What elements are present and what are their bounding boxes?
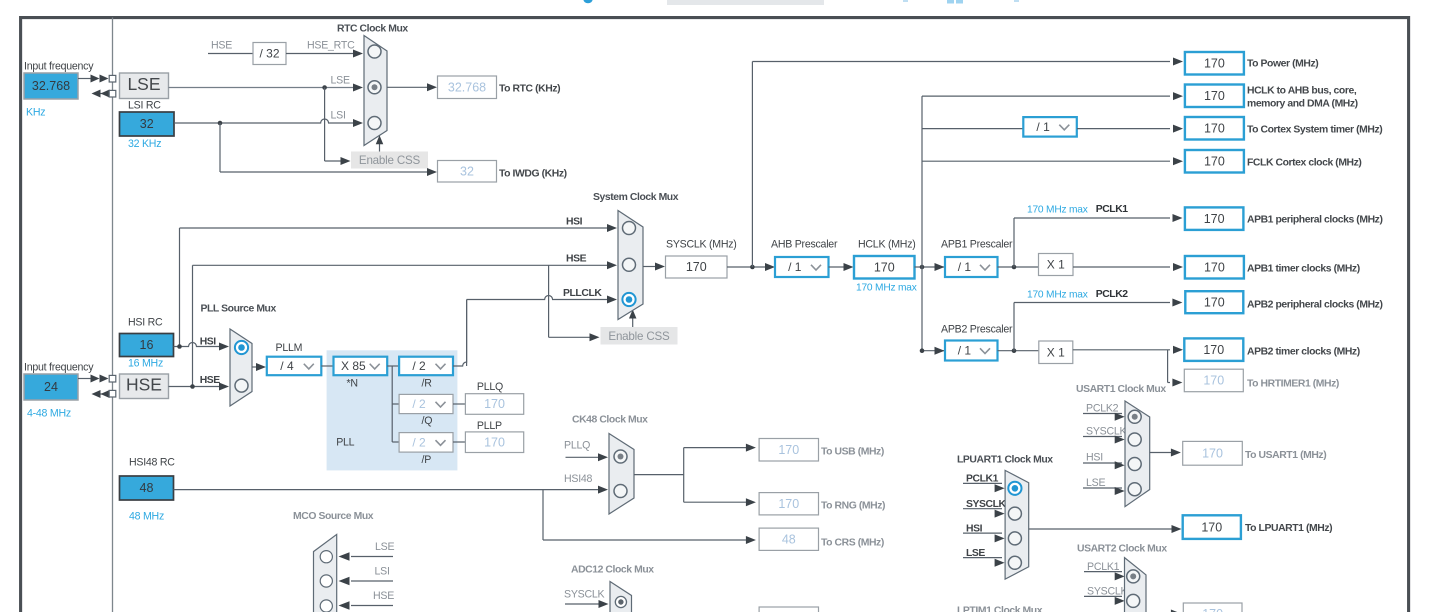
svg-text:170: 170 xyxy=(1204,56,1225,70)
svg-text:HSI: HSI xyxy=(1086,452,1103,464)
svg-text:170 MHz max: 170 MHz max xyxy=(856,283,917,294)
svg-text:To Cortex System timer (MHz): To Cortex System timer (MHz) xyxy=(1247,125,1382,136)
svg-text:HSE: HSE xyxy=(200,375,221,386)
svg-text:PLL Source Mux: PLL Source Mux xyxy=(201,304,277,315)
svg-text:USART1 Clock Mux: USART1 Clock Mux xyxy=(1076,384,1166,395)
svg-text:PLLQ: PLLQ xyxy=(564,440,590,452)
svg-text:16: 16 xyxy=(140,338,154,352)
svg-text:/ 1: / 1 xyxy=(958,260,972,274)
svg-text:170: 170 xyxy=(1204,260,1225,274)
svg-text:170: 170 xyxy=(1202,607,1223,612)
svg-text:HSE: HSE xyxy=(211,40,232,52)
svg-text:/ 2: / 2 xyxy=(412,397,426,411)
svg-text:HSI48 RC: HSI48 RC xyxy=(129,457,175,469)
svg-text:To RNG (MHz): To RNG (MHz) xyxy=(821,501,885,512)
svg-text:HSE: HSE xyxy=(373,590,394,602)
svg-text:To RTC (KHz): To RTC (KHz) xyxy=(499,84,560,95)
svg-text:LSE: LSE xyxy=(127,74,160,94)
svg-text:170: 170 xyxy=(484,397,505,411)
svg-text:32.768: 32.768 xyxy=(32,79,70,93)
svg-text:170: 170 xyxy=(484,435,505,449)
svg-text:32: 32 xyxy=(140,117,154,131)
svg-text:170: 170 xyxy=(1204,154,1225,168)
svg-text:PLLQ: PLLQ xyxy=(477,381,503,393)
svg-text:APB2 timer clocks (MHz): APB2 timer clocks (MHz) xyxy=(1247,347,1360,358)
svg-text:LSI: LSI xyxy=(331,110,346,122)
svg-text:KHz: KHz xyxy=(26,107,45,119)
svg-text:X 1: X 1 xyxy=(1047,345,1065,359)
svg-text:MCO Source Mux: MCO Source Mux xyxy=(293,511,374,522)
svg-text:*N: *N xyxy=(347,378,358,390)
svg-text:USART2 Clock Mux: USART2 Clock Mux xyxy=(1077,544,1167,555)
svg-text:HCLK to AHB bus, core,: HCLK to AHB bus, core, xyxy=(1247,86,1357,97)
svg-text:48: 48 xyxy=(140,481,154,495)
svg-text:To CRS (MHz): To CRS (MHz) xyxy=(821,538,884,549)
svg-text:HSE: HSE xyxy=(566,254,587,265)
svg-text:16 MHz: 16 MHz xyxy=(128,358,163,370)
svg-text:Input frequency: Input frequency xyxy=(24,61,94,73)
svg-text:170: 170 xyxy=(1203,343,1224,357)
svg-text:32 KHz: 32 KHz xyxy=(128,138,161,150)
svg-text:LSE: LSE xyxy=(331,75,350,87)
svg-text:Enable CSS: Enable CSS xyxy=(608,330,670,343)
svg-text:/ 1: / 1 xyxy=(958,344,972,358)
svg-text:Enable CSS: Enable CSS xyxy=(359,154,421,167)
svg-text:170: 170 xyxy=(1202,447,1223,461)
svg-text:170: 170 xyxy=(1204,295,1225,309)
svg-text:170: 170 xyxy=(1204,212,1225,226)
svg-text:32.768: 32.768 xyxy=(448,80,486,94)
svg-text:HCLK (MHz): HCLK (MHz) xyxy=(858,239,916,251)
svg-text:To HRTIMER1 (MHz): To HRTIMER1 (MHz) xyxy=(1247,379,1339,390)
svg-text:32: 32 xyxy=(460,164,474,178)
svg-text:FCLK Cortex clock (MHz): FCLK Cortex clock (MHz) xyxy=(1247,158,1361,169)
svg-text:APB1 timer clocks (MHz): APB1 timer clocks (MHz) xyxy=(1247,264,1360,275)
svg-text:System Clock Mux: System Clock Mux xyxy=(593,192,679,203)
svg-text:/P: /P xyxy=(422,454,432,466)
svg-text:LSE: LSE xyxy=(375,541,394,553)
svg-text:48: 48 xyxy=(782,532,796,546)
svg-text:To USART1 (MHz): To USART1 (MHz) xyxy=(1245,450,1326,461)
svg-text:SYSCLK (MHz): SYSCLK (MHz) xyxy=(666,239,737,251)
svg-text:170: 170 xyxy=(1203,374,1224,388)
svg-text:HSI: HSI xyxy=(200,337,217,348)
svg-text:HSE_RTC: HSE_RTC xyxy=(307,40,355,52)
svg-text:LPUART1 Clock Mux: LPUART1 Clock Mux xyxy=(957,455,1053,466)
svg-text:PLLM: PLLM xyxy=(276,342,303,354)
svg-text:CK48 Clock Mux: CK48 Clock Mux xyxy=(572,415,648,426)
svg-text:To USB (MHz): To USB (MHz) xyxy=(821,447,884,458)
svg-text:X 1: X 1 xyxy=(1047,258,1065,272)
svg-text:X 85: X 85 xyxy=(341,359,366,373)
svg-text:APB2 peripheral clocks (MHz): APB2 peripheral clocks (MHz) xyxy=(1247,300,1382,311)
svg-text:/ 2: / 2 xyxy=(412,436,426,450)
svg-text:APB2 Prescaler: APB2 Prescaler xyxy=(941,324,1013,336)
svg-text:memory and DMA (MHz): memory and DMA (MHz) xyxy=(1247,99,1358,110)
svg-text:SYSCLK: SYSCLK xyxy=(1086,426,1126,438)
svg-text:/ 1: / 1 xyxy=(788,260,802,274)
svg-text:HSI RC: HSI RC xyxy=(128,317,163,329)
svg-text:24: 24 xyxy=(44,380,58,394)
svg-text:PLLP: PLLP xyxy=(477,420,502,432)
svg-text:170: 170 xyxy=(1204,89,1225,103)
svg-text:170: 170 xyxy=(778,443,799,457)
svg-text:/ 4: / 4 xyxy=(280,359,294,373)
svg-text:To IWDG (KHz): To IWDG (KHz) xyxy=(499,169,567,180)
svg-text:170: 170 xyxy=(778,497,799,511)
svg-text:LSI RC: LSI RC xyxy=(128,100,161,112)
svg-text:4-48 MHz: 4-48 MHz xyxy=(27,408,71,420)
svg-text:Input frequency: Input frequency xyxy=(24,362,94,374)
svg-text:To LPUART1 (MHz): To LPUART1 (MHz) xyxy=(1245,523,1332,534)
svg-text:170: 170 xyxy=(1204,121,1225,135)
svg-text:PCLK1: PCLK1 xyxy=(1096,204,1129,215)
svg-text:To Power (MHz): To Power (MHz) xyxy=(1247,59,1318,70)
svg-text:/ 1: / 1 xyxy=(1036,120,1050,134)
svg-text:170: 170 xyxy=(1201,520,1222,534)
svg-text:HSI48: HSI48 xyxy=(564,473,593,485)
svg-text:/R: /R xyxy=(422,378,433,390)
svg-text:PLLCLK: PLLCLK xyxy=(563,288,602,299)
svg-text:PLL: PLL xyxy=(336,437,354,449)
svg-text:APB1 Prescaler: APB1 Prescaler xyxy=(941,239,1013,251)
svg-text:LPTIM1 Clock Mux: LPTIM1 Clock Mux xyxy=(957,606,1043,612)
svg-text:170 MHz max: 170 MHz max xyxy=(1027,205,1088,216)
svg-text:48 MHz: 48 MHz xyxy=(129,511,164,523)
svg-text:ADC12 Clock Mux: ADC12 Clock Mux xyxy=(571,565,654,576)
svg-text:AHB Prescaler: AHB Prescaler xyxy=(771,239,838,251)
svg-text:SYSCLK: SYSCLK xyxy=(564,589,604,601)
svg-text:170: 170 xyxy=(874,260,895,274)
svg-text:PCLK2: PCLK2 xyxy=(1086,403,1119,415)
svg-text:SYSCLK: SYSCLK xyxy=(1087,586,1127,598)
svg-text:/ 32: / 32 xyxy=(259,47,279,61)
svg-text:/ 2: / 2 xyxy=(412,359,426,373)
svg-text:HSI: HSI xyxy=(566,217,583,228)
svg-text:LSE: LSE xyxy=(1086,477,1105,489)
svg-text:RTC Clock Mux: RTC Clock Mux xyxy=(337,24,408,35)
svg-text:APB1 peripheral clocks (MHz): APB1 peripheral clocks (MHz) xyxy=(1247,215,1382,226)
svg-text:170 MHz max: 170 MHz max xyxy=(1027,290,1088,301)
svg-text:HSE: HSE xyxy=(126,374,162,394)
svg-text:170: 170 xyxy=(686,260,707,274)
svg-text:/Q: /Q xyxy=(422,415,433,427)
svg-text:LSI: LSI xyxy=(375,566,390,578)
svg-text:PCLK2: PCLK2 xyxy=(1096,289,1129,300)
